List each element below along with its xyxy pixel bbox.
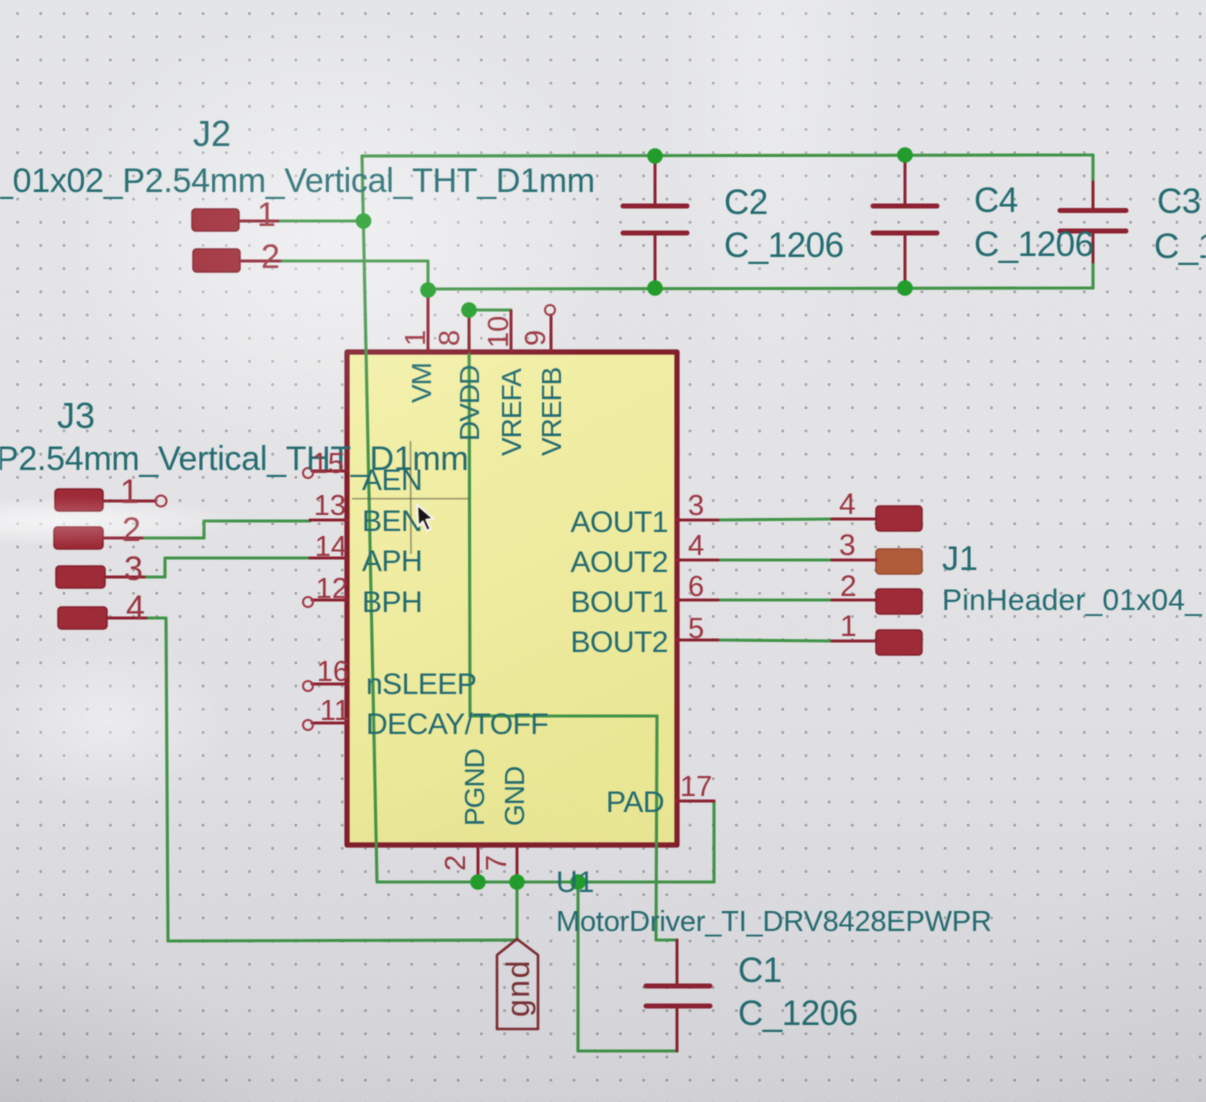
U1 pin 3 AOUT1 lead xyxy=(676,519,718,522)
U1 pin name GND xyxy=(499,767,530,826)
wire DVDD to VREFA pin xyxy=(469,308,511,311)
U1 pin 15 AEN lead xyxy=(303,468,348,478)
C1 reference label xyxy=(738,951,782,990)
C4 value label xyxy=(974,225,1094,264)
junction GND xyxy=(509,874,525,890)
U1 pin number 15 xyxy=(312,448,344,480)
wire AOUT1 to J1 pin4 xyxy=(716,519,834,520)
wire J3 pin2 to BEN xyxy=(142,521,310,538)
junction J2 pin1 xyxy=(356,213,372,229)
C3 value label xyxy=(1154,227,1206,266)
U1 pin number 4 xyxy=(688,530,704,562)
junction C4 bottom xyxy=(897,280,913,296)
wire DVDD vertical through U1 xyxy=(469,310,470,716)
wire C3 top drop xyxy=(1091,155,1094,208)
wire AOUT2 to J1 pin3 xyxy=(716,558,834,561)
U1 pin number 14 xyxy=(315,531,347,563)
J1 pin number 4 xyxy=(839,488,856,521)
U1 pin 13 BEN lead xyxy=(310,519,348,522)
U1 pin name PGND xyxy=(459,749,490,826)
U1 pin number 13 xyxy=(314,490,346,522)
wire J2 pin1 to junction xyxy=(278,219,364,222)
wire BOUT1 to J1 pin2 xyxy=(716,598,834,601)
C3 reference label xyxy=(1157,182,1201,221)
U1 pin number 11 xyxy=(320,695,350,727)
U1 pin number 16 xyxy=(317,656,349,688)
U1 pin 12 BPH lead xyxy=(303,597,348,607)
wire C1 bottom to GND rail xyxy=(578,882,677,1051)
connector J1 pad 1 xyxy=(832,630,922,655)
U1 pin 9 VREFB lead xyxy=(545,305,555,352)
J1 pin number 2 xyxy=(840,570,857,603)
U1 pin number 10 xyxy=(483,316,515,348)
J1 footprint label xyxy=(942,584,1203,617)
wire J3 pin3 to APH xyxy=(144,558,310,577)
U1 pin 16 nSLEEP lead xyxy=(303,681,348,691)
U1 pin name BOUT2 xyxy=(570,626,668,659)
U1 pin number 7 xyxy=(481,855,513,871)
J2 pin number 1 xyxy=(257,196,276,234)
gnd label text xyxy=(500,959,536,1017)
U1 pin name DVDD xyxy=(454,366,485,441)
wire DVDD down to C1 xyxy=(656,716,677,940)
U1 pin number 12 xyxy=(316,573,348,605)
wire BOUT2 to J1 pin1 xyxy=(716,640,834,641)
editor crosshair xyxy=(352,441,469,554)
wire DVDD horizontal through U1 xyxy=(470,714,657,717)
U1 pin name AOUT2 xyxy=(570,546,668,579)
U1 pin name PAD xyxy=(606,786,664,819)
wire GND bottom rail xyxy=(377,880,714,883)
U1 pin name nSLEEP xyxy=(366,668,476,701)
U1 pin name VREFB xyxy=(536,367,567,456)
J3 pin number 3 xyxy=(124,550,143,588)
op-amp U1 body (motor driver IC) xyxy=(347,352,677,845)
U1 pin number 9 xyxy=(520,330,552,346)
J3 pin number 2 xyxy=(122,511,141,549)
junction VM rail xyxy=(420,282,436,298)
connector J1 pad 2 xyxy=(832,589,922,614)
wire GND top rail xyxy=(362,155,1093,156)
connector J1 pad 4 xyxy=(832,506,922,531)
C2 reference label xyxy=(724,183,768,222)
connector J3 pad 1 xyxy=(55,489,167,511)
connector J2 pad 2 xyxy=(193,249,280,272)
U1 pin name APH xyxy=(362,545,422,578)
U1 pin 2 PGND lead xyxy=(477,845,480,880)
U1 pin name VM xyxy=(406,363,437,403)
junction C2 bottom xyxy=(647,280,663,296)
U1 pin name BOUT1 xyxy=(570,586,668,619)
mouse cursor xyxy=(417,505,433,531)
U1 pin number 2 xyxy=(440,855,472,871)
junction C4 top xyxy=(897,147,913,163)
junction C2 top xyxy=(647,148,663,164)
C4 reference label xyxy=(974,181,1018,220)
J1 pin number 1 xyxy=(840,610,857,643)
U1 pin 10 VREFA lead xyxy=(510,311,513,352)
connector J3 pad 2 xyxy=(54,527,142,549)
U1 pin 11 DECAY lead xyxy=(303,720,348,730)
U1 pin name BEN xyxy=(362,505,422,538)
J3 pin number 4 xyxy=(126,589,145,627)
wire gnd symbol drop xyxy=(515,882,518,938)
wire C3 bottom drop xyxy=(1091,234,1094,288)
J1 reference label xyxy=(942,540,978,578)
U1 pin number 17 xyxy=(680,771,712,803)
J3 reference label xyxy=(57,395,95,436)
U1 pin name BPH xyxy=(362,586,422,619)
connector J3 pad 3 xyxy=(56,566,144,588)
ground global label gnd xyxy=(497,939,538,1029)
connector J2 pad 1 xyxy=(192,209,278,231)
J1 pin number 3 xyxy=(839,529,856,562)
U1 pin 4 AOUT2 lead xyxy=(676,559,718,562)
wire J3 pin4 to gnd xyxy=(146,618,517,941)
U1 pin 6 BOUT1 lead xyxy=(676,599,718,602)
capacitor C4 xyxy=(873,157,937,286)
junction DVDD xyxy=(461,302,477,318)
U1 pin 17 PAD lead xyxy=(676,800,714,803)
junction PGND xyxy=(470,874,486,890)
capacitor C1 xyxy=(646,940,710,1051)
wire J2 pin2 to VM rail xyxy=(280,261,428,292)
connector J3 pad 4 xyxy=(58,607,146,629)
J2 footprint label xyxy=(0,162,595,200)
C1 value label xyxy=(738,994,858,1033)
U1 pin number 3 xyxy=(688,490,704,522)
U1 pin 5 BOUT2 lead xyxy=(676,639,718,642)
J3 pin number 1 xyxy=(120,473,139,511)
capacitor C2 xyxy=(623,158,687,286)
wire PAD drop xyxy=(712,801,715,882)
U1 pin number 5 xyxy=(688,613,704,645)
C2 value label xyxy=(724,226,844,265)
connector J1 pad 3 xyxy=(832,549,922,574)
U1 pin name AOUT1 xyxy=(570,506,668,539)
wire VM pin stub xyxy=(426,290,429,300)
U1 pin 8 DVDD lead xyxy=(468,314,471,352)
J2 pin number 2 xyxy=(261,238,280,276)
capacitor C3 xyxy=(1060,211,1126,232)
J3 footprint label xyxy=(0,440,468,478)
U1 pin number 1 xyxy=(400,330,432,346)
U1 pin name AEN xyxy=(362,464,422,497)
wire VM rail xyxy=(428,288,1093,289)
U1 pin name DECAY/TOFF xyxy=(366,708,548,741)
U1 pin name VREFA xyxy=(496,368,527,456)
U1 pin 14 APH lead xyxy=(310,557,348,560)
U1 reference label xyxy=(556,866,594,899)
U1 value label xyxy=(556,906,992,938)
U1 pin number 8 xyxy=(434,330,466,346)
U1 pin 7 GND lead xyxy=(516,845,519,880)
U1 pin number 6 xyxy=(688,571,704,603)
J2 reference label xyxy=(193,113,231,154)
U1 pin 1 VM lead xyxy=(427,297,430,352)
wire J2 pin1 vertical down to GND rail xyxy=(362,156,377,882)
junction C1 return xyxy=(570,874,586,890)
